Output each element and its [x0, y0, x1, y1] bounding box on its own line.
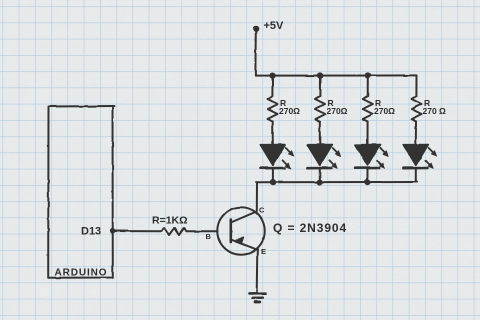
label Q value — [273, 221, 347, 235]
resistor R1 270 branch — [268, 76, 278, 145]
arduino box — [48, 106, 114, 278]
label R3 value — [374, 98, 395, 116]
node +5V dot — [253, 26, 259, 32]
svg-text:E: E — [261, 247, 266, 256]
label R4 value — [423, 98, 447, 116]
resistor R5 1K zigzag — [162, 228, 187, 235]
LED D3 — [355, 145, 389, 183]
svg-text:Q = 2N3904: Q = 2N3904 — [273, 221, 347, 235]
svg-text:270Ω: 270Ω — [374, 106, 395, 116]
svg-text:270 Ω: 270 Ω — [423, 106, 447, 116]
svg-text:270Ω: 270Ω — [327, 106, 348, 116]
wire bottom bus — [255, 181, 417, 183]
node bus dot 3 — [365, 72, 371, 78]
pin label C — [259, 206, 265, 215]
svg-text:ARDUINO: ARDUINO — [55, 268, 108, 279]
label +5V — [264, 20, 285, 32]
node bus dot 1 — [269, 73, 275, 79]
label D13 — [81, 226, 101, 238]
label R2 value — [327, 98, 348, 116]
svg-text:B: B — [206, 232, 212, 241]
wire collector up to LED bus — [256, 182, 258, 211]
transistor Q1 — [217, 207, 264, 254]
svg-text:+5V: +5V — [264, 20, 285, 32]
wire D13 to R — [113, 230, 162, 232]
pin label B — [206, 232, 212, 241]
svg-text:270Ω: 270Ω — [279, 106, 300, 116]
LED D2 — [307, 145, 341, 183]
wire top bus — [255, 74, 416, 76]
pin label E — [261, 247, 266, 256]
label R5 value — [152, 215, 188, 227]
LED D1 — [260, 145, 294, 183]
svg-text:D13: D13 — [81, 226, 101, 238]
svg-text:C: C — [259, 206, 265, 215]
label R1 value — [279, 98, 300, 116]
wire emitter down to ground — [256, 250, 259, 293]
wire +5V down — [254, 29, 256, 76]
resistor R3 270 branch — [363, 76, 373, 145]
node D13 junction dot — [110, 228, 115, 233]
wire R to base — [187, 230, 218, 232]
node bottom dot 3 — [364, 179, 370, 185]
ground — [250, 293, 266, 302]
resistor R4 270 branch — [412, 75, 422, 144]
node bus dot 2 — [317, 72, 323, 78]
node bottom dot 2 — [317, 179, 323, 185]
LED D4 — [403, 145, 437, 183]
resistor R2 270 branch — [315, 76, 325, 145]
label ARDUINO — [55, 268, 108, 279]
svg-text:R=1KΩ: R=1KΩ — [152, 215, 188, 227]
node bottom dot 1 — [270, 179, 276, 185]
